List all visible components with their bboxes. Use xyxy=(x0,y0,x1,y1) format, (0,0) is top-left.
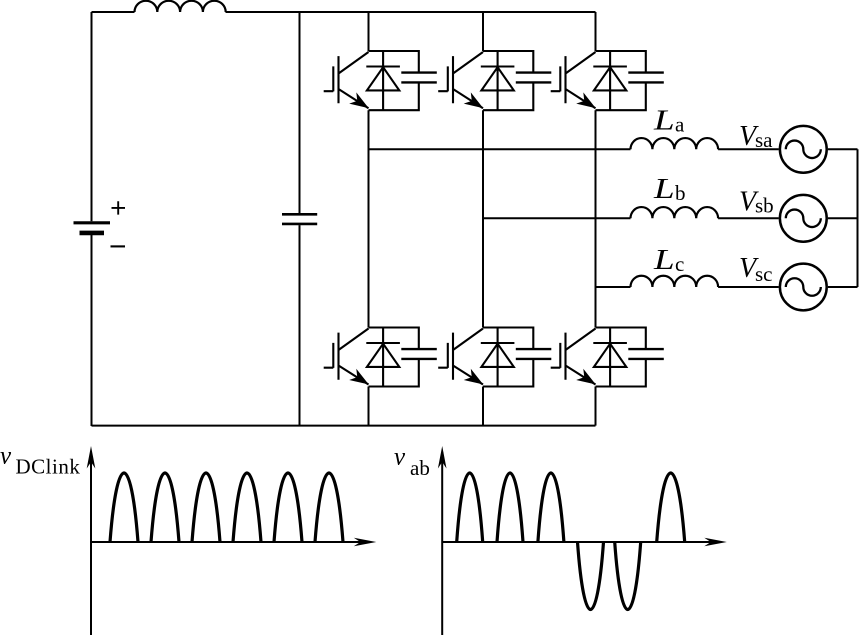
diode D6 (antiparallel) xyxy=(593,328,627,387)
wire: top DC rail xyxy=(92,11,596,13)
plot v_DClink: horizontal axis xyxy=(91,541,370,543)
wire: leg B vertical xyxy=(482,12,484,426)
label - xyxy=(111,245,126,247)
svg-text:sc: sc xyxy=(755,262,773,286)
diode D3 (antiparallel) xyxy=(593,51,627,110)
svg-text:ab: ab xyxy=(410,456,430,480)
svg-text:L: L xyxy=(653,244,675,276)
svg-text:b: b xyxy=(675,181,686,205)
IGBT Q1 xyxy=(324,52,369,108)
label + xyxy=(112,201,126,214)
snubber capacitor C6 with module box xyxy=(596,328,664,387)
IGBT Q2 xyxy=(438,52,483,108)
plot v_ab: horizontal axis xyxy=(442,541,720,543)
wire: phase c output xyxy=(596,286,858,288)
wire: bottom DC rail xyxy=(92,425,596,427)
IGBT Q5 xyxy=(438,329,483,385)
plot v_DClink: vertical axis xyxy=(90,452,92,635)
snubber capacitor C1 with module box xyxy=(369,51,437,110)
svg-text:v: v xyxy=(394,444,406,471)
snubber capacitor C2 with module box xyxy=(483,51,551,110)
wire: left branch to battery xyxy=(91,12,93,221)
wire: leg C vertical xyxy=(595,12,597,426)
battery (DC source) xyxy=(74,223,111,233)
svg-text:DClink: DClink xyxy=(16,455,81,479)
wire: leg A vertical xyxy=(368,12,370,426)
IGBT Q3 xyxy=(551,52,596,108)
diode D2 (antiparallel) xyxy=(481,51,515,110)
diode D5 (antiparallel) xyxy=(481,328,515,387)
waveform v_ab humps xyxy=(457,473,685,610)
inductor La xyxy=(631,138,719,149)
DC-link capacitor xyxy=(282,214,317,224)
inductor Lb xyxy=(631,207,719,218)
diode D1 (antiparallel) xyxy=(366,51,400,110)
wire: phase b output xyxy=(483,217,858,219)
svg-text:L: L xyxy=(653,104,675,136)
diode D4 (antiparallel) xyxy=(366,328,400,387)
svg-text:sa: sa xyxy=(755,128,773,152)
wire: DC-link branch upper xyxy=(299,12,301,213)
snubber capacitor C3 with module box xyxy=(596,51,664,110)
snubber capacitor C4 with module box xyxy=(369,328,437,387)
AC source Vsa xyxy=(780,126,827,173)
inductor L dc (input filter) xyxy=(135,1,226,12)
svg-text:sb: sb xyxy=(755,194,774,218)
svg-text:c: c xyxy=(675,252,684,276)
inductor Lc xyxy=(631,276,719,287)
plot v_ab: vertical axis xyxy=(441,452,443,635)
IGBT Q6 xyxy=(551,329,596,385)
AC source Vsc xyxy=(780,264,827,311)
wire: DC-link branch lower xyxy=(299,225,301,426)
waveform v_DClink humps xyxy=(110,473,343,542)
wire: battery negative to bottom rail xyxy=(91,235,93,427)
wire: phase a output xyxy=(369,148,858,150)
IGBT Q4 xyxy=(324,329,369,385)
AC source Vsb xyxy=(780,195,827,242)
svg-text:v: v xyxy=(0,443,12,470)
snubber capacitor C5 with module box xyxy=(483,328,551,387)
svg-text:L: L xyxy=(653,173,675,205)
svg-text:a: a xyxy=(675,112,685,136)
wire: grid neutral bus (right) xyxy=(857,149,859,287)
